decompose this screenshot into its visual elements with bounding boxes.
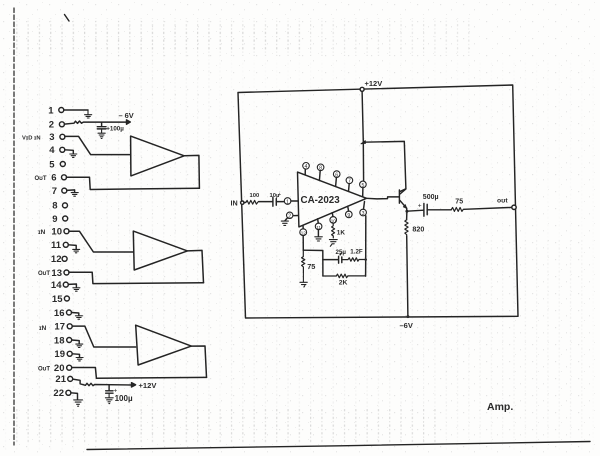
wire pin3 node down bbox=[365, 216, 367, 276]
terminal 16 bbox=[54, 308, 72, 319]
resistor 1.2F (feedback) bbox=[342, 248, 365, 261]
svg-text:+12V: +12V bbox=[139, 381, 158, 390]
junction dot -6V rail bbox=[406, 315, 409, 318]
terminal OUT bbox=[512, 205, 516, 209]
svg-text:25µ: 25µ bbox=[336, 249, 347, 256]
svg-text:11: 11 bbox=[51, 240, 62, 251]
ground (terminal 14) bbox=[73, 288, 80, 291]
ground (terminal 1) bbox=[85, 110, 92, 118]
ground (terminal 16) bbox=[75, 316, 82, 319]
terminal 19 bbox=[54, 349, 72, 360]
pin 3 bbox=[360, 202, 367, 217]
svg-text:100µ: 100µ bbox=[115, 394, 133, 403]
svg-text:4: 4 bbox=[305, 164, 308, 170]
arrowhead -6V bbox=[127, 120, 131, 124]
wire A1 output feedback bbox=[184, 155, 199, 188]
terminal 9 bbox=[52, 214, 67, 225]
svg-text:9: 9 bbox=[52, 214, 57, 225]
svg-text:8: 8 bbox=[52, 201, 57, 212]
svg-text:5: 5 bbox=[361, 183, 364, 189]
outer supply loop rectangle bbox=[238, 85, 518, 318]
wire terminal22 to ground bbox=[71, 393, 78, 400]
terminal 5 bbox=[49, 159, 65, 170]
op-amp buffer A3 bbox=[136, 325, 192, 365]
ground (capacitor 100u bottom) bbox=[105, 393, 113, 403]
svg-text:7: 7 bbox=[52, 186, 57, 197]
capacitor 10u (input) bbox=[270, 192, 282, 206]
svg-text:+12V: +12V bbox=[365, 79, 383, 88]
wire cap to pin1 bbox=[276, 201, 284, 203]
wire IN to resistor bbox=[244, 201, 246, 203]
terminal 6 bbox=[51, 173, 66, 184]
resistor 1K (pin 10) bbox=[332, 223, 346, 238]
terminal 11 bbox=[51, 240, 68, 251]
resistor 820 bbox=[405, 220, 425, 235]
wire terminal20 to feedback bbox=[72, 368, 207, 379]
svg-text:12: 12 bbox=[51, 254, 62, 265]
pin 1 bbox=[284, 198, 291, 206]
svg-text:+: + bbox=[278, 192, 282, 198]
page margin dashed line bbox=[13, 8, 15, 445]
ground (terminal 11) bbox=[73, 249, 80, 252]
capacitor 100u (bottom) bbox=[106, 385, 133, 402]
svg-text:6: 6 bbox=[51, 173, 56, 184]
terminal 22 bbox=[53, 388, 70, 399]
wire pin1 to op-amp bbox=[291, 200, 298, 202]
ground (resistor 75) bbox=[300, 272, 307, 287]
wire resistor 75 to OUT bbox=[464, 207, 512, 209]
svg-text:OʊT: OʊT bbox=[35, 176, 47, 182]
svg-text:1K: 1K bbox=[337, 230, 346, 237]
resistor 100 (input) bbox=[246, 193, 259, 204]
svg-text:20: 20 bbox=[54, 363, 65, 374]
junction dot feedback node bbox=[364, 258, 367, 261]
terminal 12 bbox=[51, 254, 67, 265]
terminal 21 bbox=[55, 374, 72, 385]
op-amp U1 triangle bbox=[298, 172, 367, 227]
svg-text:–6V: –6V bbox=[400, 321, 413, 330]
ground (capacitor 100u top) bbox=[98, 129, 105, 139]
svg-text:19: 19 bbox=[54, 349, 65, 360]
terminal 14 bbox=[51, 280, 68, 291]
svg-text:2: 2 bbox=[49, 120, 54, 131]
wire terminal2 with bump to -6V arrow bbox=[64, 121, 127, 124]
svg-text:OʊT: OʊT bbox=[38, 367, 50, 373]
svg-text:820: 820 bbox=[412, 224, 424, 233]
wire resistor to cap 10u bbox=[259, 201, 273, 203]
wire terminal4 to ground bbox=[65, 150, 74, 154]
wire terminal18 to ground bbox=[72, 340, 80, 344]
ground (pin 2) bbox=[281, 221, 288, 225]
terminal 10 bbox=[51, 227, 69, 238]
svg-text:3: 3 bbox=[49, 132, 54, 143]
svg-text:18: 18 bbox=[54, 335, 65, 346]
wire terminal6 to feedback bbox=[67, 177, 200, 189]
pin 5 bbox=[360, 181, 367, 196]
junction dot emitter node bbox=[405, 210, 408, 213]
pin 7 bbox=[346, 177, 353, 191]
arrowhead +12V (left) bbox=[132, 383, 136, 387]
ground (terminal 7) bbox=[71, 193, 78, 197]
svg-text:1.2F: 1.2F bbox=[350, 248, 363, 255]
svg-text:ɪN: ɪN bbox=[39, 325, 47, 332]
svg-text:+: + bbox=[418, 203, 422, 210]
transistor Q1 emitter arrow bbox=[403, 205, 407, 209]
terminal 3 bbox=[49, 132, 65, 143]
terminal +12V bbox=[360, 87, 364, 91]
terminal 8 bbox=[52, 201, 67, 212]
terminal 17 bbox=[54, 322, 72, 333]
wire terminal7 to ground bbox=[67, 190, 75, 192]
svg-text:500µ: 500µ bbox=[423, 194, 439, 201]
svg-text:22: 22 bbox=[53, 388, 64, 399]
terminal 18 bbox=[54, 335, 72, 346]
terminal IN bbox=[241, 201, 244, 204]
page bottom edge bbox=[87, 442, 590, 450]
ground (pin 10) bbox=[329, 240, 337, 247]
ground (terminal 19) bbox=[76, 358, 83, 361]
op-amp buffer A2 bbox=[133, 231, 187, 270]
wire terminal21 with resistor bump to +12V arrow bbox=[73, 379, 132, 386]
svg-text:10: 10 bbox=[51, 227, 62, 238]
wire node to divider bbox=[303, 250, 323, 276]
wire terminal16 to ground bbox=[72, 313, 79, 316]
terminal 13 bbox=[51, 268, 69, 279]
terminal 2 bbox=[49, 120, 65, 131]
wire terminal13 to feedback bbox=[69, 272, 204, 283]
svg-text:5: 5 bbox=[49, 159, 55, 170]
ground (terminal 18) bbox=[76, 344, 83, 347]
pin 9 bbox=[346, 206, 353, 219]
wire +12V rail down to pin5 bbox=[362, 91, 364, 181]
stray pen mark top-left bbox=[65, 15, 70, 22]
wire A2 output feedback bbox=[187, 250, 203, 282]
svg-text:7: 7 bbox=[348, 179, 351, 185]
wire pin11 to ground bbox=[317, 230, 319, 237]
wire output node to resistor 820 bbox=[406, 211, 408, 220]
svg-text:1: 1 bbox=[48, 105, 54, 116]
capacitor 100u (top) bbox=[97, 122, 124, 132]
svg-text:75: 75 bbox=[455, 198, 463, 205]
pin 8 bbox=[317, 164, 324, 181]
wire emitter to output node bbox=[406, 208, 408, 211]
pin 12 bbox=[300, 225, 307, 235]
wire terminal11 to ground bbox=[68, 245, 76, 249]
wire output node to cap 500u bbox=[407, 210, 424, 211]
svg-text:75: 75 bbox=[307, 262, 315, 271]
svg-text:15: 15 bbox=[52, 294, 63, 305]
resistor 2K (feedback lower) bbox=[323, 274, 366, 286]
svg-text:100: 100 bbox=[250, 193, 260, 199]
svg-text:oʊt: oʊt bbox=[497, 198, 508, 205]
wire pin2 to ground bbox=[285, 218, 288, 221]
ground (terminal 22) bbox=[74, 400, 83, 406]
svg-text:2: 2 bbox=[288, 214, 291, 220]
svg-text:4: 4 bbox=[49, 145, 55, 156]
svg-text:– 6V: – 6V bbox=[119, 111, 134, 120]
svg-text:11: 11 bbox=[316, 225, 321, 230]
svg-text:16: 16 bbox=[54, 308, 65, 319]
junction node collector branch bbox=[361, 141, 366, 144]
wire terminal17 to amp3 input bbox=[72, 326, 136, 347]
transistor Q1 bbox=[399, 189, 406, 208]
wire terminal14 to ground bbox=[68, 284, 76, 287]
svg-text:OʊT: OʊT bbox=[38, 271, 50, 277]
svg-text:+100µ: +100µ bbox=[106, 126, 124, 133]
wire pin12 down to node bbox=[302, 236, 304, 251]
terminal 15 bbox=[52, 294, 69, 305]
svg-text:1: 1 bbox=[286, 200, 289, 206]
pin 10 bbox=[330, 213, 337, 224]
wire cap 500u to resistor 75 bbox=[427, 209, 451, 211]
pin 6 bbox=[333, 171, 340, 187]
resistor 75 (pin 12 to ground) bbox=[302, 250, 316, 272]
wire collector branch bbox=[363, 141, 406, 191]
svg-text:17: 17 bbox=[54, 322, 65, 333]
svg-text:2K: 2K bbox=[339, 279, 348, 286]
svg-text:IN: IN bbox=[231, 199, 238, 208]
transistor Q1 base lead bbox=[367, 197, 400, 199]
wire A3 output feedback bbox=[191, 346, 206, 377]
wire resistor 820 to -6V rail bbox=[407, 236, 408, 317]
wire terminal3 to amp1 input bbox=[65, 136, 131, 154]
capacitor 500u (output) bbox=[418, 194, 439, 216]
svg-text:21: 21 bbox=[55, 374, 66, 385]
svg-text:10: 10 bbox=[331, 218, 337, 223]
svg-text:6: 6 bbox=[335, 173, 338, 179]
svg-text:CA-2023: CA-2023 bbox=[301, 195, 341, 206]
wire terminal1 to ground bbox=[64, 109, 88, 111]
capacitor 25u (feedback) bbox=[323, 249, 346, 263]
resistor 75 (output) bbox=[451, 198, 463, 211]
svg-text:3: 3 bbox=[362, 211, 365, 217]
svg-text:9: 9 bbox=[347, 213, 350, 219]
svg-text:13: 13 bbox=[51, 268, 62, 279]
terminal 1 bbox=[48, 105, 64, 116]
svg-text:14: 14 bbox=[51, 280, 62, 291]
terminal 20 bbox=[54, 363, 72, 374]
svg-text:8: 8 bbox=[319, 166, 322, 172]
svg-text:VɪD ɪN: VɪD ɪN bbox=[22, 136, 41, 142]
ground (pin 11) bbox=[315, 237, 323, 241]
terminal 4 bbox=[49, 145, 65, 156]
pin 2 bbox=[287, 212, 299, 220]
wire terminal19 to ground bbox=[72, 354, 79, 357]
wire terminal10 to amp2 input bbox=[69, 231, 133, 252]
terminal 7 bbox=[52, 186, 67, 197]
pin 4 bbox=[303, 163, 310, 175]
ground (terminal 4) bbox=[70, 154, 77, 157]
svg-text:Amp.: Amp. bbox=[487, 401, 513, 413]
op-amp buffer A1 bbox=[131, 136, 185, 176]
svg-text:ɪN: ɪN bbox=[38, 229, 46, 236]
pin 11 bbox=[315, 219, 322, 230]
